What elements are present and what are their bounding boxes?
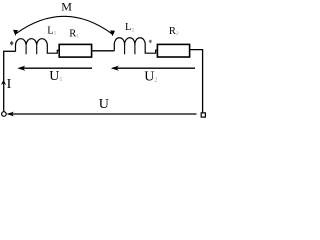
svg-text:U: U xyxy=(99,97,109,112)
svg-text:M: M xyxy=(61,0,72,14)
svg-text:I: I xyxy=(7,77,12,92)
